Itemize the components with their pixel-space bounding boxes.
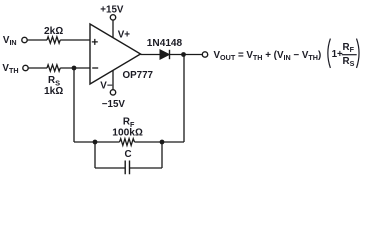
capacitor C plates [125,161,129,175]
wire feedback rail left segment [74,141,120,143]
svg-text:OP777: OP777 [123,70,154,81]
wire V+ supply [112,20,114,37]
formula big right paren [357,39,360,68]
svg-text:V−: V− [100,80,113,91]
wire RS to opamp minus input [60,67,90,69]
svg-text:100kΩ: 100kΩ [112,127,143,138]
svg-text:V+: V+ [118,30,131,41]
svg-text:1N4148: 1N4148 [147,38,183,49]
wire inverting node down to feedback rail [73,68,75,142]
formula big left paren [328,39,331,68]
svg-text:−15V: −15V [102,99,126,110]
wire VIN to R1 [28,39,48,41]
op-amp U1 triangle [90,24,141,84]
svg-text:C: C [125,149,132,160]
-15V terminal circle [110,90,115,95]
svg-text:1kΩ: 1kΩ [44,86,63,97]
svg-text:2kΩ: 2kΩ [44,26,63,37]
resistor 2k zigzag [47,37,60,43]
node VOUT terminal circle [202,52,207,57]
opamp plus sign [92,39,98,45]
node VTH terminal circle [23,65,28,70]
diode D1 1N4148 [160,50,169,59]
junction dot RF-C left [93,140,98,145]
wire VTH to RS [29,67,48,69]
wire R1 to opamp plus input [60,39,90,41]
formula fraction bar [342,54,357,56]
wire capacitor rail left [95,167,125,169]
wire output node down to feedback rail [183,55,185,143]
wire right stub to capacitor rail [161,142,163,168]
wire feedback rail right segment [135,141,185,143]
junction dot RF-C right [160,140,165,145]
junction dot output node [181,52,186,57]
resistor RF zigzag [120,139,135,146]
svg-text:1+: 1+ [332,49,343,60]
wire V- supply [112,71,114,90]
svg-text:+15V: +15V [100,4,124,15]
node VIN terminal circle [22,37,27,42]
wire diode to output terminal [170,54,203,56]
+15V terminal circle [110,15,115,20]
wire capacitor rail right [130,167,163,169]
resistor RS zigzag [47,65,60,71]
opamp minus sign [92,67,98,69]
junction dot inverting node [72,66,77,71]
wire left stub to capacitor rail [94,142,96,168]
wire opamp output to diode [141,54,161,56]
